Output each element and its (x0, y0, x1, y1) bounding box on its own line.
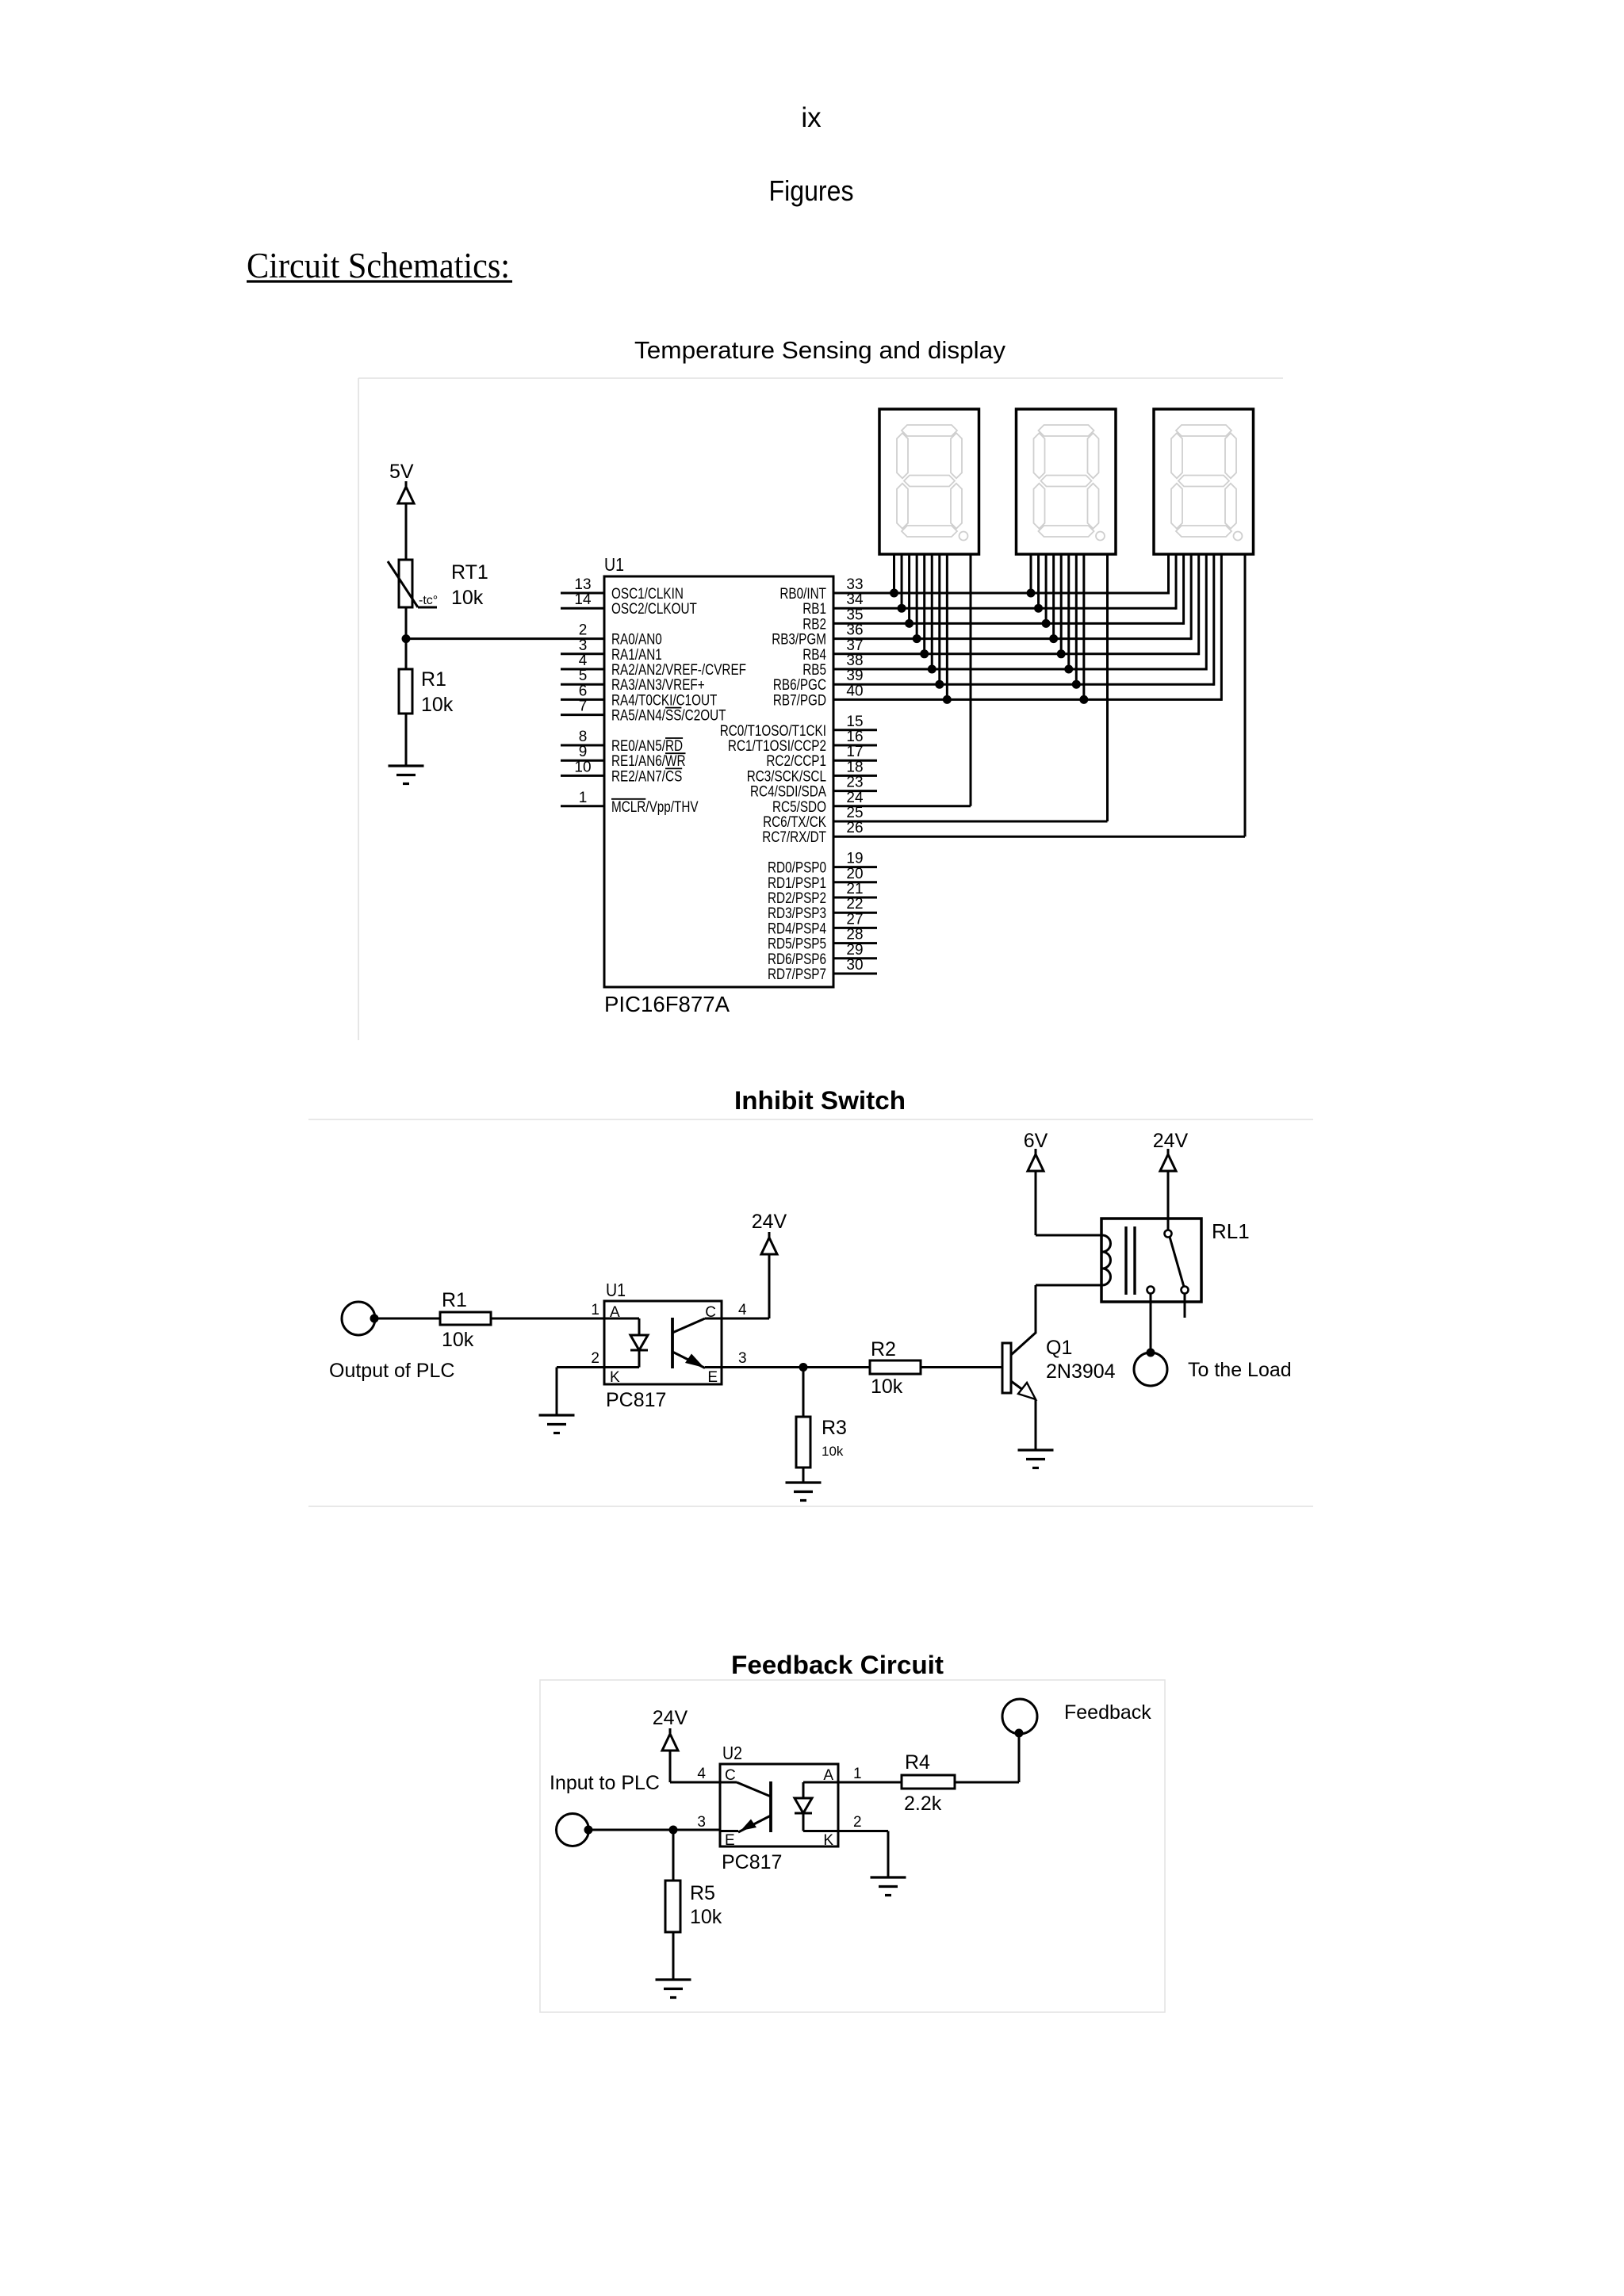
LED inside U2 (803, 1781, 838, 1784)
svg-text:10k: 10k (442, 1329, 474, 1351)
junction DS2 seg2 (1042, 619, 1051, 628)
svg-text:9: 9 (579, 744, 588, 760)
wire DS1 seg1 vertical (901, 554, 903, 608)
wire bus RB1 (pin 34) (877, 607, 1176, 610)
svg-text:39: 39 (846, 668, 863, 684)
U1 pin 21 RD2/PSP2 (833, 897, 877, 899)
wire relay NO to load (1150, 1294, 1152, 1353)
svg-text:RA1/AN1: RA1/AN1 (611, 647, 662, 664)
U1 pin 37 RB4 (833, 652, 877, 655)
U1 pin 26 RC7/RX/DT (833, 836, 877, 838)
svg-text:RL1: RL1 (1212, 1219, 1250, 1243)
svg-text:Inhibit Switch: Inhibit Switch (734, 1086, 906, 1115)
wire 6V to relay coil top (1035, 1171, 1037, 1235)
svg-text:10k: 10k (690, 1906, 722, 1928)
svg-text:8: 8 (579, 729, 588, 745)
junction DS2 seg3 (1049, 634, 1058, 643)
svg-text:40: 40 (846, 683, 863, 699)
figure 2 frame (308, 1119, 1313, 1120)
svg-text:37: 37 (846, 637, 863, 654)
svg-text:R5: R5 (690, 1882, 715, 1904)
wire DS1 seg7 vertical (946, 554, 948, 699)
svg-text:Feedback: Feedback (1064, 1701, 1151, 1724)
svg-text:PIC16F877A: PIC16F877A (604, 992, 730, 1016)
U1 pin 29 RD6/PSP6 (833, 957, 877, 959)
wire DS1 seg2 vertical (908, 554, 910, 623)
svg-text:24V: 24V (1153, 1130, 1189, 1152)
svg-text:RB5: RB5 (802, 662, 826, 679)
ground (R3) (786, 1481, 822, 1483)
wire U2 pin2 to ground (838, 1830, 888, 1832)
svg-text:RD1/PSP1: RD1/PSP1 (768, 875, 826, 892)
svg-text:R3: R3 (822, 1417, 847, 1439)
node R5 junction (669, 1826, 678, 1835)
svg-text:3: 3 (738, 1350, 747, 1367)
svg-text:6: 6 (579, 683, 588, 699)
svg-text:2N3904: 2N3904 (1046, 1360, 1116, 1383)
relay switch (1165, 1230, 1172, 1238)
svg-text:E: E (707, 1369, 718, 1386)
svg-text:RB7/PGD: RB7/PGD (773, 692, 826, 709)
resistor R1 10k (fig1) (399, 669, 412, 714)
svg-text:23: 23 (846, 775, 863, 791)
node RA0 junction (402, 634, 411, 643)
U1 pin 13 OSC1/CLKIN (561, 592, 604, 595)
wire DS1 seg6 vertical (938, 554, 940, 684)
svg-text:Temperature Sensing and displa: Temperature Sensing and display (634, 336, 1005, 364)
junction DS1 seg0 (890, 589, 898, 598)
U1 pin 24 RC5/SDO (833, 805, 877, 807)
svg-text:RA2/AN2/VREF-/CVREF: RA2/AN2/VREF-/CVREF (611, 662, 746, 679)
node pin3/R3 junction (799, 1363, 808, 1372)
resistor R4 2.2k (902, 1775, 955, 1789)
svg-text:30: 30 (846, 957, 863, 974)
svg-text:29: 29 (846, 942, 863, 959)
U1 pin 34 RB1 (833, 607, 877, 610)
U1 pin 6 RA4/T0CKI/C1OUT (561, 698, 604, 701)
junction DS2 seg1 (1034, 604, 1043, 613)
svg-text:2: 2 (591, 1350, 599, 1367)
svg-text:OSC2/CLKOUT: OSC2/CLKOUT (611, 601, 697, 618)
transistor Q1 2N3904 (1002, 1343, 1011, 1393)
svg-text:17: 17 (846, 744, 863, 760)
svg-text:R2: R2 (871, 1338, 896, 1360)
svg-text:RC3/SCK/SCL: RC3/SCK/SCL (747, 768, 826, 785)
wire terminal to R1 (374, 1318, 440, 1320)
U1 pin 10 RE2/AN7/CS (561, 775, 604, 777)
svg-text:-tc°: -tc° (419, 594, 438, 607)
svg-text:RA5/AN4/SS/C2OUT: RA5/AN4/SS/C2OUT (611, 708, 726, 725)
svg-text:K: K (610, 1369, 620, 1386)
svg-text:RB0/INT: RB0/INT (779, 586, 826, 603)
junction DS2 seg0 (1027, 589, 1036, 598)
svg-text:RC5/SDO: RC5/SDO (772, 799, 826, 816)
U1 pin 20 RD1/PSP1 (833, 881, 877, 883)
svg-text:10k: 10k (822, 1444, 844, 1459)
svg-text:RE1/AN6/WR: RE1/AN6/WR (611, 753, 686, 770)
svg-text:RE0/AN5/RD: RE0/AN5/RD (611, 738, 683, 755)
svg-text:4: 4 (579, 652, 588, 669)
svg-text:ix: ix (801, 102, 822, 133)
svg-text:27: 27 (846, 911, 863, 928)
svg-text:28: 28 (846, 927, 863, 943)
svg-text:16: 16 (846, 729, 863, 745)
wire DS2 seg2 vertical (1045, 554, 1048, 623)
svg-text:36: 36 (846, 622, 863, 639)
svg-text:RC0/T1OSO/T1CKI: RC0/T1OSO/T1CKI (720, 723, 826, 740)
resistor R2 10k (870, 1360, 921, 1374)
svg-text:RA4/T0CKI/C1OUT: RA4/T0CKI/C1OUT (611, 692, 718, 709)
wire RC5 to DS1 common (877, 805, 971, 807)
wire R2 to Q1 base (921, 1366, 1002, 1368)
U1 pin 30 RD7/PSP7 (833, 973, 877, 975)
ground (U2 pin2) (871, 1876, 906, 1878)
wire bus RB4 (pin 37) (877, 652, 1199, 655)
terminal To the Load (1147, 1349, 1155, 1357)
relay core (1124, 1226, 1127, 1295)
optocoupler U2 PC817 (720, 1764, 838, 1846)
phototransistor inside U1 (671, 1318, 674, 1368)
svg-text:RD2/PSP2: RD2/PSP2 (768, 890, 826, 907)
svg-text:10: 10 (574, 759, 591, 775)
wire U2 pin1 to R4 (838, 1781, 902, 1784)
U1 pin 35 RB2 (833, 622, 877, 625)
thermistor RT1 10k (399, 560, 412, 607)
svg-text:RA0/AN0: RA0/AN0 (611, 632, 662, 649)
svg-text:RC7/RX/DT: RC7/RX/DT (762, 829, 826, 846)
svg-text:RB6/PGC: RB6/PGC (773, 677, 826, 694)
figure 3 frame (540, 1680, 1165, 2012)
wire Q1 collector to relay coil bottom (1036, 1284, 1101, 1287)
svg-text:18: 18 (846, 759, 863, 775)
phototransistor inside U2 (769, 1781, 772, 1832)
wire 24V to relay common (1167, 1171, 1170, 1230)
wire bus RB0 (pin 33) (877, 592, 1169, 595)
U1 pin 22 RD3/PSP3 (833, 912, 877, 914)
wire DS3 seg6 vertical (1212, 554, 1215, 686)
svg-text:24V: 24V (752, 1211, 787, 1233)
wire DS1 seg3 vertical (916, 554, 918, 639)
junction DS2 seg4 (1057, 649, 1066, 658)
terminal Output of PLC (342, 1302, 375, 1335)
wire DS3 seg7 vertical (1220, 554, 1223, 701)
svg-text:Figures: Figures (769, 174, 854, 207)
junction DS1 seg3 (913, 634, 921, 643)
wire DS1 seg5 vertical (931, 554, 933, 669)
svg-text:3: 3 (697, 1814, 706, 1831)
svg-text:Output of PLC: Output of PLC (329, 1360, 454, 1382)
LED inside U1 (604, 1318, 639, 1320)
U1 pin 28 RD5/PSP5 (833, 942, 877, 944)
svg-text:5V: 5V (389, 461, 414, 483)
U1 pin 16 RC1/T1OSI/CCP2 (833, 744, 877, 747)
U1 pin 25 RC6/TX/CK (833, 821, 877, 823)
svg-text:1: 1 (591, 1302, 599, 1318)
svg-text:Feedback Circuit: Feedback Circuit (731, 1651, 944, 1679)
svg-text:RT1: RT1 (451, 561, 488, 584)
wire DS3 seg0 vertical (1167, 554, 1170, 595)
wire bus RB7 (pin 40) (877, 698, 1221, 701)
U1 pin 18 RC3/SCK/SCL (833, 775, 877, 777)
optocoupler U1 PC817 (fig2) (604, 1301, 722, 1384)
U1 pin 23 RC4/SDI/SDA (833, 790, 877, 792)
svg-text:RB2: RB2 (802, 616, 826, 633)
svg-text:Circuit Schematics:: Circuit Schematics: (247, 246, 510, 285)
ground (R1) (389, 764, 424, 767)
svg-text:10k: 10k (451, 587, 484, 609)
wire 5V to RT1 (405, 503, 408, 560)
svg-text:R4: R4 (905, 1751, 930, 1774)
svg-text:26: 26 (846, 820, 863, 836)
wire DS2 seg6 vertical (1075, 554, 1078, 684)
svg-text:6V: 6V (1024, 1130, 1048, 1152)
svg-text:U1: U1 (604, 554, 624, 575)
microcontroller U1 PIC16F877A (604, 576, 833, 987)
svg-text:2: 2 (579, 622, 588, 639)
wire U1 pin4 to 24V (722, 1318, 769, 1320)
wire DS3 seg4 vertical (1197, 554, 1200, 655)
U1 pin 5 RA3/AN3/VREF+ (561, 683, 604, 686)
svg-text:Input to PLC: Input to PLC (550, 1772, 660, 1794)
U1 pin 4 RA2/AN2/VREF-/CVREF (561, 668, 604, 671)
U1 pin 9 RE1/AN6/WR (561, 760, 604, 762)
7-segment display DS2 (1017, 409, 1116, 554)
U1 pin 38 RB5 (833, 668, 877, 671)
svg-text:RC6/TX/CK: RC6/TX/CK (763, 814, 826, 831)
wire DS2 seg0 vertical (1030, 554, 1032, 593)
svg-text:4: 4 (697, 1766, 706, 1782)
svg-text:MCLR/Vpp/THV: MCLR/Vpp/THV (611, 799, 699, 816)
wire RC7 to DS3 common (877, 836, 1245, 838)
svg-text:5: 5 (579, 668, 588, 684)
junction DS1 seg6 (935, 680, 944, 689)
svg-text:2: 2 (853, 1814, 862, 1831)
svg-text:20: 20 (846, 866, 863, 882)
figure 1 frame (358, 377, 1283, 379)
U1 pin 8 RE0/AN5/RD (561, 744, 604, 747)
svg-text:24V: 24V (653, 1707, 688, 1729)
svg-text:RD5/PSP5: RD5/PSP5 (768, 936, 826, 953)
relay RL1 (1101, 1219, 1201, 1302)
svg-text:14: 14 (574, 591, 592, 608)
svg-text:1: 1 (853, 1766, 862, 1782)
svg-text:PC817: PC817 (606, 1389, 666, 1411)
svg-text:Q1: Q1 (1046, 1337, 1072, 1359)
wire RC6 to DS2 common (877, 821, 1108, 823)
resistor R5 10k (672, 1830, 675, 1881)
wire R1 to U1 pin 1 (491, 1318, 604, 1320)
wire R5 to ground (672, 1932, 675, 1980)
junction DS1 seg7 (943, 695, 952, 704)
svg-text:RB3/PGM: RB3/PGM (772, 632, 826, 649)
wire U1 pin3 to R2 (722, 1366, 870, 1368)
svg-text:RA3/AN3/VREF+: RA3/AN3/VREF+ (611, 677, 705, 694)
svg-text:2.2k: 2.2k (904, 1793, 942, 1815)
junction DS1 seg5 (928, 665, 936, 674)
svg-text:U1: U1 (606, 1280, 626, 1300)
Q1 collector wire (1011, 1333, 1036, 1355)
relay coil (1102, 1235, 1111, 1252)
wire DS3 seg5 vertical (1205, 554, 1208, 671)
wire bus RB3 (pin 36) (877, 637, 1191, 640)
wire node to U1 pin 2 (RA0) (406, 637, 604, 640)
wire R4 to Feedback terminal (955, 1781, 1019, 1784)
svg-text:24: 24 (846, 790, 864, 806)
svg-text:K: K (823, 1832, 833, 1849)
ground (R5) (656, 1978, 691, 1980)
U1 pin 19 RD0/PSP0 (833, 866, 877, 868)
U1 pin 33 RB0/INT (833, 592, 877, 595)
wire DS2 seg1 vertical (1037, 554, 1040, 608)
wire DS2 seg3 vertical (1052, 554, 1055, 639)
svg-text:7: 7 (579, 698, 588, 715)
U1 pin 15 RC0/T1OSO/T1CKI (833, 729, 877, 731)
svg-text:21: 21 (846, 881, 863, 897)
wire DS3 seg2 vertical (1182, 554, 1185, 625)
svg-text:38: 38 (846, 652, 863, 669)
wire DS3 seg3 vertical (1190, 554, 1193, 640)
svg-text:34: 34 (846, 591, 864, 608)
relay NC stub (1184, 1294, 1186, 1318)
svg-text:3: 3 (579, 637, 588, 654)
wire DS1 seg0 vertical (893, 554, 895, 593)
svg-text:R1: R1 (421, 668, 446, 691)
resistor R3 10k (802, 1368, 805, 1418)
svg-text:RD0/PSP0: RD0/PSP0 (768, 860, 826, 877)
wire DS1 seg4 vertical (923, 554, 925, 654)
wire R3 to ground (802, 1468, 805, 1483)
wire U1 pin2 to ground (557, 1366, 604, 1368)
ground (U1 pin2) (539, 1414, 575, 1416)
U1 pin 7 RA5/AN4/SS/C2OUT (561, 714, 604, 716)
svg-text:19: 19 (846, 851, 863, 867)
svg-text:RC1/T1OSI/CCP2: RC1/T1OSI/CCP2 (728, 738, 826, 755)
junction DS2 seg7 (1079, 695, 1088, 704)
resistor R1 10k (fig2) (440, 1312, 491, 1325)
wire DS2 seg5 vertical (1067, 554, 1070, 669)
svg-text:15: 15 (846, 714, 863, 730)
svg-text:4: 4 (738, 1302, 747, 1318)
svg-text:RC2/CCP1: RC2/CCP1 (766, 753, 826, 770)
Q1 emitter wire (1011, 1381, 1036, 1399)
svg-text:1: 1 (579, 790, 588, 806)
junction DS2 seg5 (1064, 665, 1073, 674)
wire bus RB6 (pin 39) (877, 683, 1214, 686)
wire DS2 seg7 vertical (1082, 554, 1085, 699)
svg-text:OSC1/CLKIN: OSC1/CLKIN (611, 586, 684, 603)
wire bus RB2 (pin 35) (877, 622, 1184, 625)
wire R1 to ground (405, 714, 408, 766)
svg-text:RD7/PSP7: RD7/PSP7 (768, 966, 826, 983)
junction DS2 seg6 (1072, 680, 1081, 689)
wire DS2 seg4 vertical (1060, 554, 1063, 654)
svg-text:RD4/PSP4: RD4/PSP4 (768, 920, 826, 937)
U1 pin 14 OSC2/CLKOUT (561, 607, 604, 610)
svg-text:RB4: RB4 (802, 647, 826, 664)
svg-text:22: 22 (846, 896, 863, 913)
svg-text:RD3/PSP3: RD3/PSP3 (768, 905, 826, 922)
svg-text:RD6/PSP6: RD6/PSP6 (768, 951, 826, 968)
7-segment display DS1 (879, 409, 979, 554)
ground (Q1 emitter) (1018, 1448, 1054, 1451)
svg-text:25: 25 (846, 805, 863, 821)
terminal input (fig3) (557, 1814, 589, 1846)
terminal Feedback (1015, 1729, 1024, 1738)
svg-text:R1: R1 (442, 1289, 467, 1311)
wire bus RB5 (pin 38) (877, 668, 1206, 671)
svg-text:10k: 10k (421, 694, 454, 716)
junction DS1 seg1 (898, 604, 906, 613)
wire DS3 seg1 vertical (1175, 554, 1178, 610)
U1 pin 39 RB6/PGC (833, 683, 877, 686)
7-segment display DS3 (1154, 409, 1254, 554)
svg-text:To the Load: To the Load (1188, 1359, 1292, 1381)
svg-text:RC4/SDI/SDA: RC4/SDI/SDA (750, 784, 826, 801)
svg-text:10k: 10k (871, 1376, 903, 1398)
svg-text:PC817: PC817 (722, 1851, 782, 1873)
svg-text:RB1: RB1 (802, 601, 826, 618)
wire terminal to U2 pin 3 (588, 1829, 720, 1831)
svg-text:E: E (725, 1832, 735, 1849)
junction DS1 seg4 (920, 649, 929, 658)
svg-text:13: 13 (574, 576, 591, 593)
wire 24V to U2 pin 4 (669, 1751, 672, 1782)
svg-text:35: 35 (846, 607, 863, 623)
U1 pin 27 RD4/PSP4 (833, 927, 877, 929)
junction DS1 seg2 (905, 619, 913, 628)
U1 pin 3 RA1/AN1 (561, 652, 604, 655)
svg-text:33: 33 (846, 576, 863, 593)
svg-text:RE2/AN7/CS: RE2/AN7/CS (611, 768, 682, 785)
wire RT1 to node (405, 607, 408, 669)
svg-text:U2: U2 (722, 1743, 742, 1763)
U1 pin 36 RB3/PGM (833, 637, 877, 640)
U1 pin 40 RB7/PGD (833, 698, 877, 701)
U1 pin 1 MCLR/Vpp/THV (561, 805, 604, 807)
U1 pin 17 RC2/CCP1 (833, 760, 877, 762)
